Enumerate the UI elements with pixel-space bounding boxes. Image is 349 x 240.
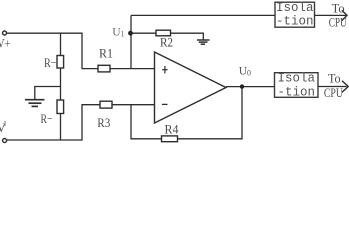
isolation box 1: [275, 2, 315, 27]
ground (right): [197, 40, 210, 44]
node U0: [240, 84, 244, 88]
ground (left): [25, 100, 45, 107]
svg-text:-tion: -tion: [277, 86, 315, 100]
svg-text:R2: R2: [160, 34, 173, 49]
wire feedback loop: [131, 87, 242, 139]
svg-text:R4: R4: [165, 122, 179, 137]
resistor R2: [156, 30, 171, 36]
wire R- to V- rail: [60, 114, 62, 141]
svg-text:R1: R1: [99, 46, 113, 61]
wire top rail to isolation 1: [131, 14, 275, 16]
wire V- rail to R3 riser: [7, 105, 100, 140]
op-amp U: [155, 52, 227, 123]
wire op-amp output: [226, 86, 275, 88]
wire R2 to ground: [171, 33, 204, 40]
svg-text:Isola: Isola: [276, 1, 314, 15]
wire R3 to op-amp - input: [112, 104, 155, 106]
resistor R- (lower): [57, 100, 64, 114]
wire R- branch top: [60, 33, 62, 55]
svg-text:To: To: [332, 1, 345, 16]
wire arrow to CPU 1: [315, 14, 347, 16]
op-amp + pin mark: [162, 66, 167, 73]
resistor R3: [100, 101, 112, 108]
svg-text:R3: R3: [97, 115, 110, 130]
op-amp - pin mark: [162, 103, 168, 105]
resistor R- (upper): [57, 56, 64, 69]
svg-text:U0: U0: [239, 66, 251, 78]
terminal V: [3, 139, 7, 143]
svg-text:R−: R−: [44, 55, 57, 70]
wire V+ rail to R1 riser: [7, 33, 98, 68]
svg-text:-tion: -tion: [276, 14, 314, 28]
isolation box 2: [275, 73, 319, 98]
wire U1 to R2: [131, 32, 156, 34]
svg-text:CPU: CPU: [329, 15, 347, 30]
svg-text:U1: U1: [112, 27, 124, 39]
svg-text:R−: R−: [41, 111, 53, 126]
terminal V+: [3, 31, 7, 35]
node U1: [128, 31, 133, 36]
wire between R- resistors: [60, 68, 62, 100]
wire R1 to op-amp + input: [110, 68, 155, 70]
svg-text:To: To: [328, 71, 341, 86]
svg-text:Isola: Isola: [277, 72, 315, 86]
wire arrow to CPU 2: [318, 86, 347, 88]
svg-text:CPU: CPU: [324, 85, 343, 100]
wire node U1 vertical: [130, 15, 132, 68]
resistor R1: [98, 65, 110, 72]
resistor R4: [162, 136, 178, 142]
svg-text:V+: V+: [0, 36, 10, 50]
wire ground tap: [35, 87, 61, 100]
